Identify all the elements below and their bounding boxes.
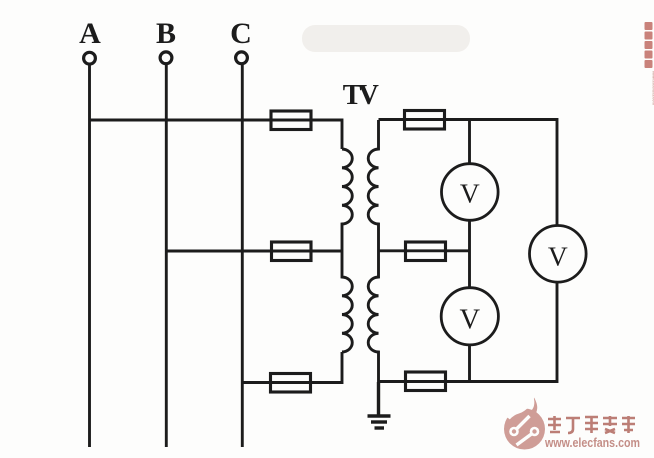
transformer TV primary winding [342,149,352,352]
wire B to primary centre tap [166,250,342,253]
svg-text:V: V [460,178,480,209]
svg-text:C: C [230,17,252,50]
wire C to primary bottom [242,352,342,383]
fuse FU2 [272,242,312,261]
terminal C [236,52,248,64]
transformer TV secondary winding [368,120,378,382]
svg-text:www.elecfans.com: www.elecfans.com [651,70,654,105]
voltmeter V1 [442,164,499,221]
wire secondary c to bottom right [379,282,558,382]
wire voltmeter column upper drop [468,120,471,165]
terminal B [160,52,172,64]
svg-text:V: V [548,240,568,271]
wire phase C vertical [241,64,244,447]
wire phase A vertical [88,65,91,447]
fuse FU4 [405,111,445,130]
voltmeter V2 [530,226,587,283]
terminal A [84,52,96,64]
svg-text:TV: TV [343,80,380,111]
wire secondary a-phase to right column [379,120,558,227]
fuse FU5 [406,242,446,261]
wire phase B vertical [165,64,168,447]
svg-text:A: A [79,17,101,50]
wire secondary b-tap to voltmeter column [379,249,470,252]
ground [368,382,391,428]
svg-text:V: V [460,305,481,336]
svg-text:B: B [156,17,176,50]
fuse FU6 [406,372,446,391]
fuse FU3 [271,374,311,393]
fuse FU1 [271,111,311,130]
wire V3 to bottom wire [468,344,471,381]
wire between V1 and V3 [468,220,471,289]
wire A to primary top [90,120,343,149]
svg-text:www.elecfans.com: www.elecfans.com [544,436,640,450]
voltmeter V3 [441,288,498,345]
